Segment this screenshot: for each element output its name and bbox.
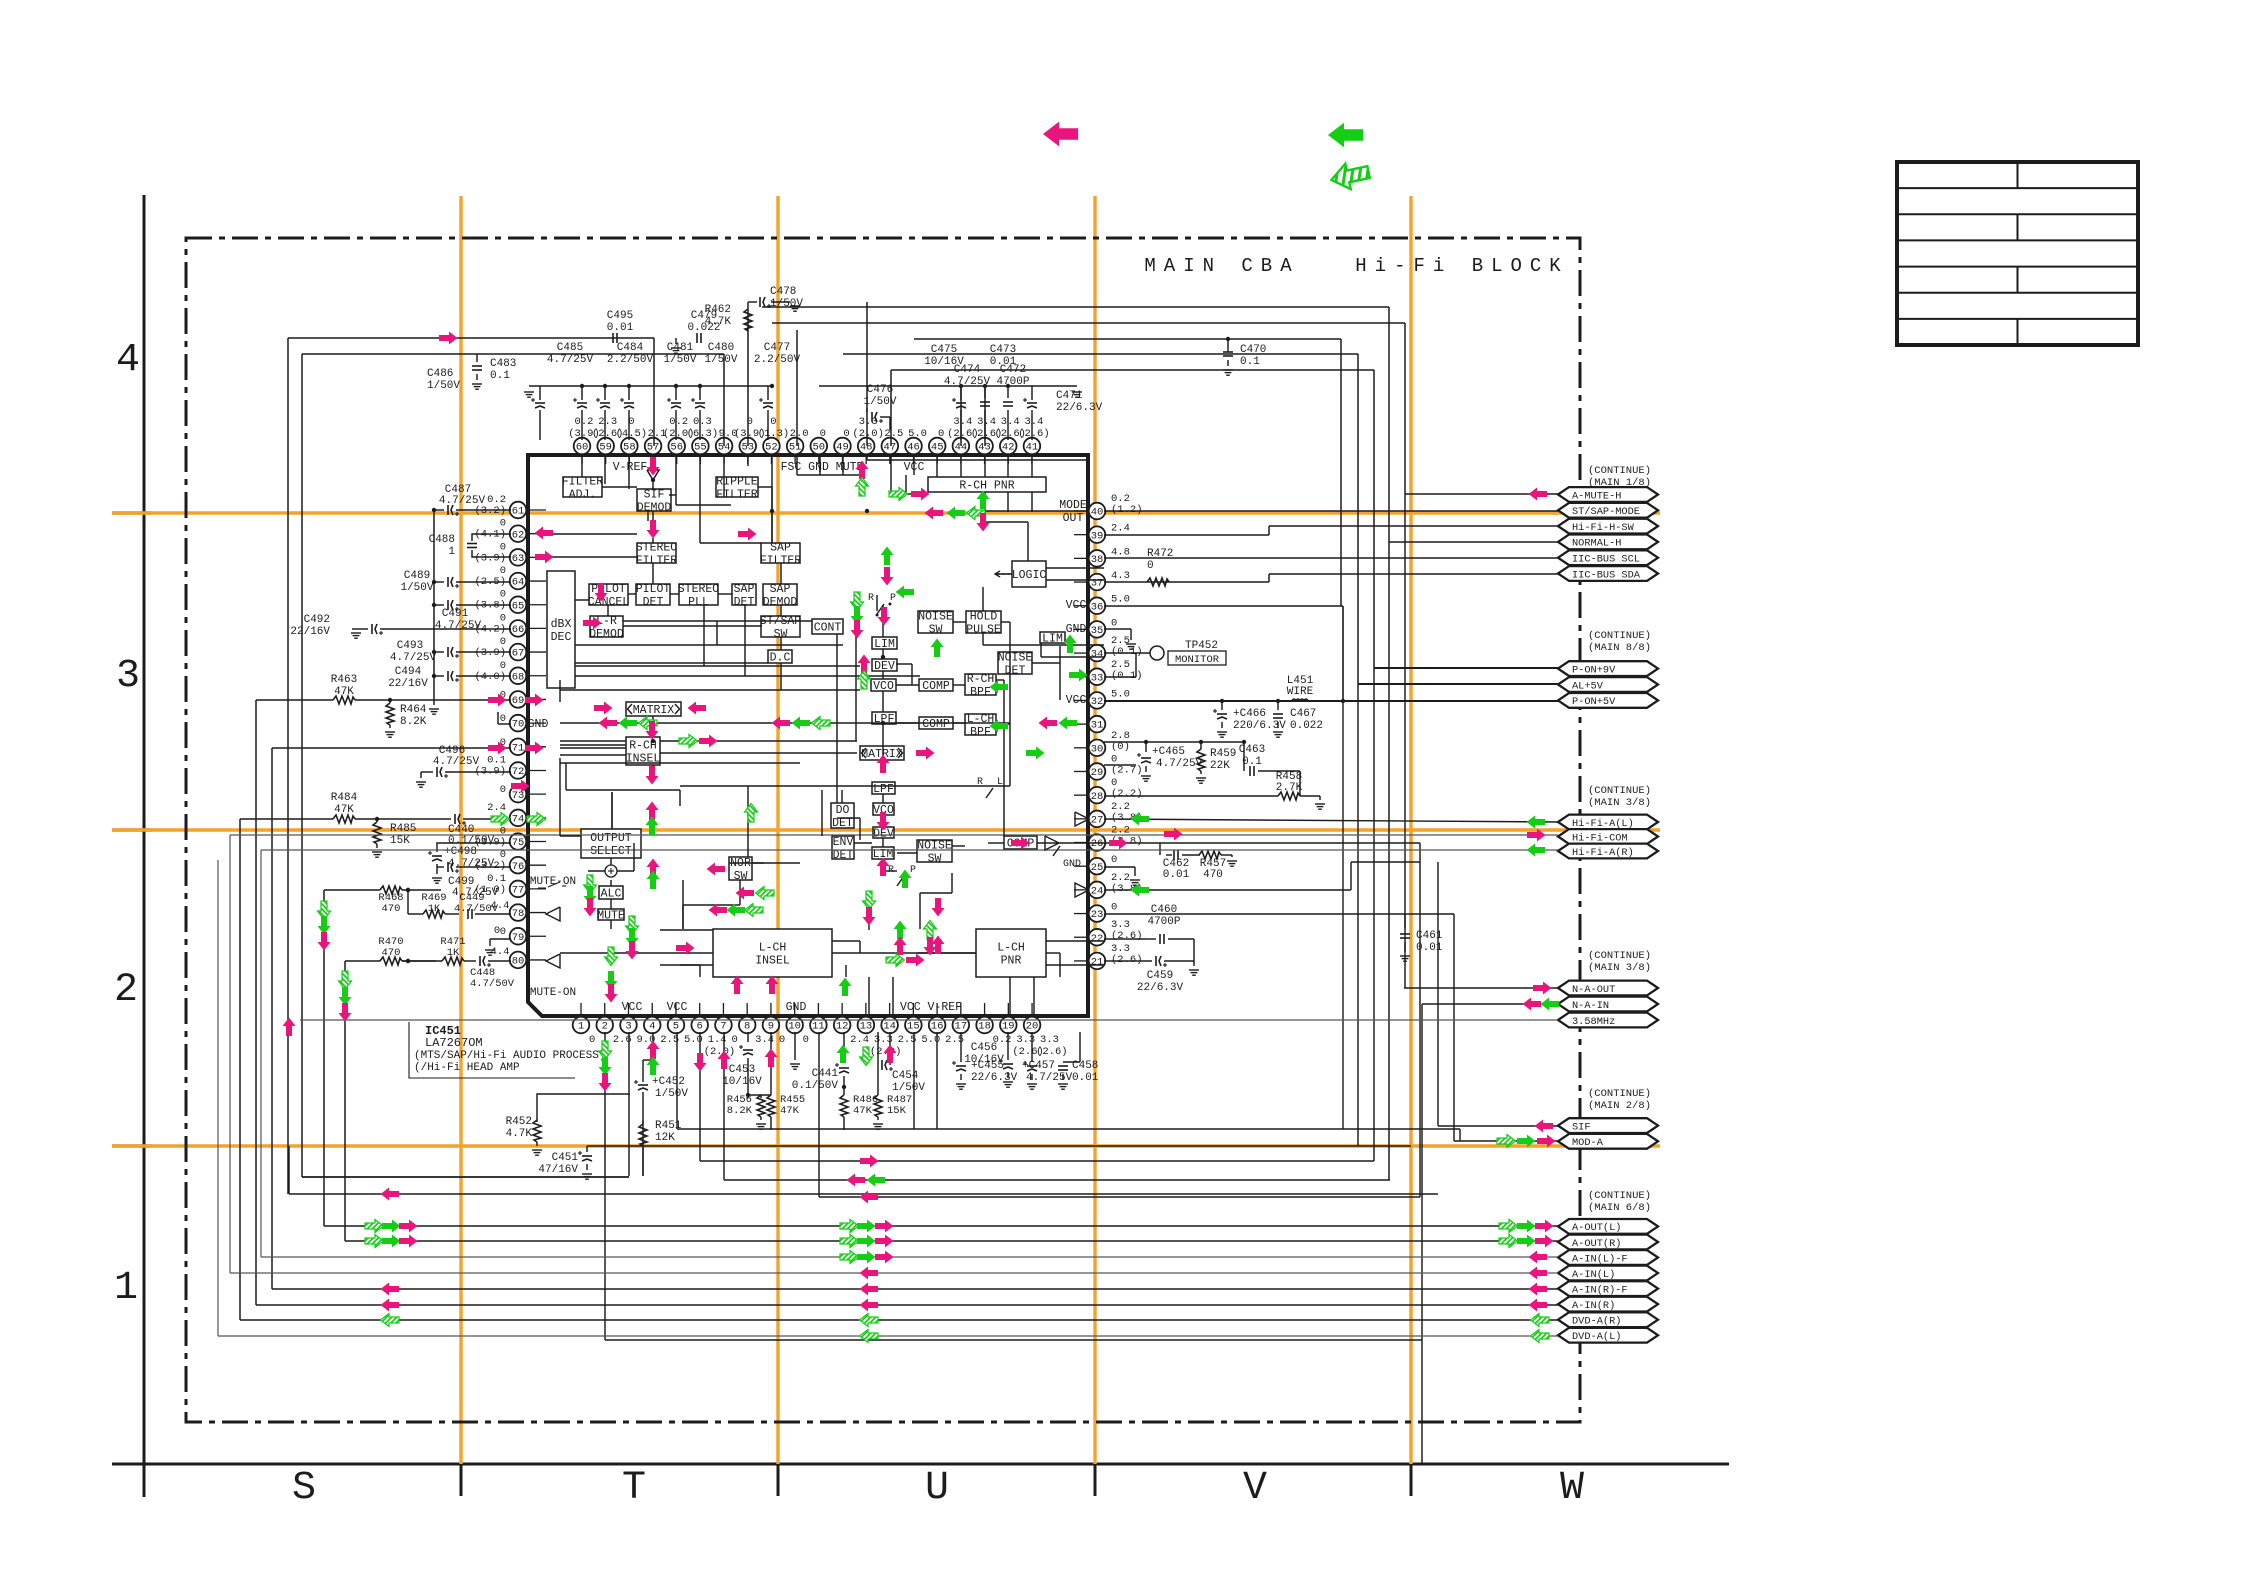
svg-text:4.7/25V: 4.7/25V: [390, 652, 437, 664]
signal arrow: [886, 954, 905, 967]
signal arrow: [745, 804, 758, 823]
pin value: [474, 849, 506, 872]
svg-text:(3.9): (3.9): [474, 765, 506, 777]
wire: [490, 939, 511, 946]
wire: [652, 538, 654, 543]
svg-text:36: 36: [1091, 601, 1104, 613]
svg-text:34: 34: [1091, 649, 1104, 661]
function block MATRIX: [860, 746, 904, 761]
signal arrow: [856, 478, 869, 497]
pin value: [500, 713, 506, 725]
signal arrow: [860, 1299, 879, 1312]
wire: [794, 1032, 796, 1060]
ground: [1130, 880, 1140, 885]
pin value: [921, 1034, 940, 1046]
capacitor C465: [1137, 742, 1203, 781]
svg-text:MUTE-ON: MUTE-ON: [530, 987, 576, 999]
pin value: [1111, 594, 1130, 606]
svg-text:V: V: [1243, 1466, 1267, 1511]
resistor R456: [727, 1094, 771, 1129]
wire: [797, 474, 860, 476]
wire: [1031, 492, 1033, 512]
svg-text:DVD-A(L): DVD-A(L): [1572, 1331, 1621, 1343]
pin 54: [716, 438, 733, 455]
wire: [883, 870, 897, 872]
signal arrow: [894, 921, 907, 940]
IC interior label: [1066, 623, 1087, 636]
wire: [240, 1319, 1558, 1321]
wire: [680, 785, 1010, 787]
signal arrow: [535, 527, 554, 540]
signal arrow: [399, 1220, 418, 1233]
signal arrow: [731, 976, 744, 995]
wire: [718, 593, 732, 595]
wire: [679, 790, 681, 806]
pin value: [803, 1034, 809, 1046]
continue note: [1588, 465, 1651, 489]
wire: [724, 1179, 1390, 1181]
wire: [434, 581, 511, 583]
logic arrow: [995, 571, 1012, 577]
wire: [842, 466, 844, 475]
legend arrow pink: [1043, 122, 1078, 147]
svg-text:32: 32: [1091, 696, 1104, 708]
svg-text:R463: R463: [331, 674, 357, 686]
wire: [882, 794, 884, 803]
IC interior label: [528, 718, 549, 731]
signal arrow: [1527, 816, 1546, 829]
wire: [676, 504, 731, 506]
signal arrow: [911, 488, 930, 501]
pin 43: [976, 438, 993, 455]
svg-text:PNR: PNR: [1001, 955, 1022, 968]
junction: [865, 509, 869, 513]
pin value: [719, 428, 738, 440]
signal arrow: [318, 901, 331, 920]
resistor R471: [440, 936, 465, 965]
IC interior label: [900, 1001, 962, 1014]
svg-text:0: 0: [628, 416, 634, 428]
pin 24: [1089, 882, 1106, 899]
svg-text:IIC-BUS SDA: IIC-BUS SDA: [1572, 569, 1641, 581]
orange grid line: [112, 511, 1660, 514]
signal arrow: [840, 1251, 859, 1264]
svg-text:SW: SW: [928, 853, 942, 866]
wire: [617, 870, 634, 872]
wire: [588, 870, 605, 872]
pin 50: [811, 438, 828, 455]
pin value: [1111, 635, 1143, 658]
junction: [1144, 740, 1148, 744]
wire: [843, 354, 1358, 684]
signal arrow: [863, 891, 876, 910]
signal arrow: [646, 721, 659, 740]
capacitor C471: [1023, 386, 1037, 430]
svg-text:22/6.3V: 22/6.3V: [971, 1072, 1018, 1084]
wire: [669, 494, 676, 496]
wire: [882, 724, 884, 760]
wire: [837, 817, 860, 819]
pin value: [1036, 1046, 1068, 1058]
wire: [747, 455, 749, 466]
junction: [1341, 699, 1345, 703]
wire: [1009, 977, 1011, 1016]
pin value: [1111, 493, 1143, 516]
wire: [882, 859, 884, 871]
pin 1: [573, 1017, 590, 1034]
wire: [1421, 1339, 1423, 1341]
wire: [1046, 952, 1060, 954]
svg-text:COMP: COMP: [922, 680, 950, 693]
wire: [652, 716, 654, 725]
revision table: [1897, 162, 2138, 345]
signal arrow: [1011, 837, 1030, 850]
signal arrow: [1535, 1235, 1554, 1248]
svg-text:DEMOD: DEMOD: [763, 596, 798, 609]
svg-text:MONITOR: MONITOR: [1175, 654, 1220, 666]
capacitor C481: [667, 386, 681, 430]
capacitor C453: [722, 1032, 762, 1098]
svg-text:A-IN(L): A-IN(L): [1572, 1269, 1615, 1281]
svg-text:MATRIX: MATRIX: [633, 704, 675, 717]
signal arrow: [1529, 488, 1548, 501]
IC interior label: [622, 1001, 643, 1014]
svg-text:GND: GND: [528, 718, 549, 731]
svg-text:47K: 47K: [780, 1105, 800, 1117]
svg-text:0: 0: [820, 428, 826, 440]
pin value: [820, 428, 826, 440]
svg-text:AL+5V: AL+5V: [1572, 680, 1604, 692]
signal arrow: [525, 742, 544, 755]
svg-text:56: 56: [670, 442, 683, 454]
signal arrow: [584, 875, 597, 894]
svg-text:22/6.3V: 22/6.3V: [1056, 402, 1103, 414]
node IIC-BUS SDA: [1558, 566, 1658, 581]
node ST/SAP-MODE: [1558, 503, 1658, 518]
svg-text:4.7K: 4.7K: [705, 316, 732, 328]
signal arrow: [1527, 844, 1546, 857]
wire: [914, 339, 1341, 606]
svg-text:71: 71: [512, 742, 525, 754]
wire: [747, 310, 749, 446]
wire: [575, 662, 768, 664]
wire: [261, 1256, 1558, 1258]
pin value: [474, 636, 506, 659]
wire: [682, 880, 684, 929]
svg-text:D.C: D.C: [770, 652, 791, 665]
svg-text:48: 48: [860, 442, 873, 454]
pin 49: [834, 438, 851, 455]
capacitor C498: [428, 843, 511, 870]
svg-text:0.3: 0.3: [693, 416, 712, 428]
pin 79: [510, 928, 527, 945]
signal arrow: [736, 887, 755, 900]
node A-IN(L)-F: [1558, 1250, 1658, 1265]
label C472: [996, 364, 1029, 388]
node P-ON+5V: [1558, 693, 1658, 708]
svg-text:R484: R484: [331, 792, 358, 804]
wire: [1453, 914, 1455, 1141]
pin 48: [858, 438, 875, 455]
signal arrow: [856, 461, 869, 480]
frame tick: [460, 1464, 463, 1496]
wire: [960, 455, 962, 477]
wire: [255, 700, 257, 1305]
signal arrow: [745, 904, 764, 917]
capacitor C492: [290, 614, 511, 638]
svg-text:LIM: LIM: [874, 638, 895, 651]
capacitor C479: [671, 310, 721, 353]
wire: [527, 841, 546, 843]
IC interior label: [781, 461, 864, 474]
wire: [723, 477, 725, 497]
frame tick: [777, 1464, 780, 1496]
op-amp IC451 outline: [528, 455, 1088, 1016]
svg-text:DEMOD: DEMOD: [589, 628, 624, 641]
wire: [652, 563, 654, 584]
wire: [896, 684, 919, 686]
pin value: [971, 416, 1003, 440]
svg-text:LIM: LIM: [1042, 633, 1063, 646]
svg-text:(3.8): (3.8): [474, 600, 506, 612]
wire: [752, 862, 800, 864]
wire: [984, 492, 986, 522]
label C480: [704, 342, 737, 366]
wire: [675, 430, 677, 440]
wire: [683, 904, 740, 906]
svg-text:DET: DET: [833, 849, 854, 862]
function block VCO: [873, 803, 894, 817]
signal arrow: [605, 984, 618, 1003]
wire: [546, 556, 637, 558]
svg-text:0: 0: [938, 428, 944, 440]
resistor R469: [421, 892, 446, 918]
ground: [1315, 804, 1325, 809]
signal arrow: [318, 916, 331, 935]
wire: [1454, 1140, 1558, 1142]
wire: [882, 671, 884, 679]
wire: [1104, 795, 1278, 797]
svg-text:47: 47: [884, 442, 897, 454]
capacitor C472: [1003, 386, 1013, 430]
wire: [1031, 430, 1033, 440]
wire: [892, 977, 894, 1016]
signal arrow: [1517, 1235, 1536, 1248]
label C474: [944, 364, 991, 388]
pin value: [1012, 1046, 1044, 1058]
pin 60: [574, 438, 591, 455]
svg-text:15K: 15K: [887, 1105, 907, 1117]
svg-text:(2.6): (2.6): [1111, 930, 1143, 942]
wire: [300, 1019, 1558, 1021]
signal arrow: [599, 1041, 612, 1060]
pin value: [884, 428, 903, 440]
svg-text:5: 5: [673, 1021, 679, 1033]
wire: [604, 1003, 606, 1016]
logic arrow: [995, 571, 1012, 577]
pin 29: [1089, 763, 1106, 780]
wire: [611, 792, 613, 829]
svg-text:20: 20: [1026, 1021, 1039, 1033]
capacitor C467: [1273, 701, 1323, 737]
pin 4: [644, 1017, 661, 1034]
svg-text:55: 55: [694, 442, 707, 454]
svg-text:47K: 47K: [334, 686, 354, 698]
signal arrow: [535, 551, 554, 564]
svg-text:2.2/50V: 2.2/50V: [754, 354, 801, 366]
wire: [794, 455, 796, 464]
grid col label V: [1243, 1466, 1267, 1511]
wire: [984, 1003, 986, 1016]
wire: [1007, 455, 1009, 477]
svg-text:1: 1: [578, 1021, 584, 1033]
wire: [1104, 913, 1454, 915]
node Hi-Fi-COM: [1558, 829, 1658, 844]
IC interior label: [613, 461, 648, 474]
function block LIM: [872, 847, 894, 861]
wire: [836, 634, 838, 803]
node 3.58MHz: [1558, 1013, 1658, 1028]
function block SAP FILTER: [760, 542, 802, 568]
svg-text:C475: C475: [931, 344, 957, 356]
wire: [605, 455, 607, 464]
svg-text:+C466: +C466: [1233, 708, 1266, 720]
function block R-CH BPF: [965, 673, 996, 699]
wire: [682, 905, 684, 929]
function block LOGIC: [1012, 561, 1047, 587]
svg-text:(2.0): (2.0): [852, 428, 884, 440]
svg-text:C453: C453: [729, 1064, 755, 1076]
wire: [1104, 700, 1558, 702]
svg-text:Hi-Fi-A(R): Hi-Fi-A(R): [1572, 847, 1634, 859]
signal arrow: [718, 1051, 731, 1070]
wire: [652, 455, 654, 462]
capacitor C454: [878, 1032, 925, 1094]
node N-A-OUT: [1558, 981, 1658, 996]
svg-text:RIPPLE: RIPPLE: [716, 476, 758, 489]
wire: [560, 952, 713, 954]
capacitor C457: [1022, 1032, 1073, 1089]
svg-text:MAIN CBA: MAIN CBA: [1144, 255, 1299, 277]
wire: [604, 455, 606, 484]
function block NOR SW: [729, 857, 752, 883]
junction: [375, 817, 379, 821]
capacitor C483: [472, 354, 516, 389]
svg-text:C481: C481: [667, 342, 694, 354]
svg-text:61: 61: [512, 506, 525, 518]
svg-text:C489: C489: [404, 570, 430, 582]
signal arrow: [990, 681, 1009, 694]
resistor R463: [256, 674, 511, 704]
svg-text:0.01: 0.01: [1163, 869, 1190, 881]
svg-text:ENV: ENV: [833, 836, 854, 849]
svg-text:3.3: 3.3: [859, 416, 878, 428]
wire: [817, 1003, 819, 1016]
wire: [565, 763, 567, 790]
wire: [527, 793, 546, 795]
pin 20: [1024, 1017, 1041, 1034]
wire: [1244, 742, 1300, 796]
signal arrow: [1529, 1283, 1548, 1296]
pin value: [1111, 659, 1143, 682]
signal arrow: [884, 1045, 897, 1064]
wire: [866, 455, 868, 460]
signal arrow: [619, 717, 638, 730]
svg-text:MODE: MODE: [1059, 499, 1087, 512]
orange grid line: [112, 828, 1660, 831]
wire: [301, 1146, 303, 1177]
label C471: [1056, 390, 1103, 414]
svg-text:33: 33: [1091, 672, 1104, 684]
signal arrow: [694, 1053, 707, 1072]
svg-text:(1.3): (1.3): [758, 428, 790, 440]
pin value: [491, 946, 510, 958]
signal arrow: [766, 976, 779, 995]
wire: [723, 455, 725, 464]
function block VCO: [871, 679, 896, 693]
svg-text:OUTPUT: OUTPUT: [590, 832, 632, 845]
signal arrow: [837, 1045, 850, 1064]
signal arrow: [867, 1174, 886, 1187]
signal arrow: [847, 1174, 866, 1187]
signal arrow: [881, 567, 894, 586]
svg-text:(3.9): (3.9): [474, 837, 506, 849]
wire: [1358, 683, 1558, 685]
wire: [560, 835, 581, 837]
signal arrow: [916, 747, 935, 760]
svg-text:22/16V: 22/16V: [388, 678, 428, 690]
wire: [1074, 794, 1087, 796]
wire: [700, 1160, 1374, 1162]
pin 38: [1089, 550, 1106, 567]
svg-text:0.2: 0.2: [575, 416, 594, 428]
wire: [633, 843, 635, 871]
pin value: [589, 1034, 595, 1046]
border frame left rule: [143, 195, 146, 1497]
capacitor C488: [429, 534, 511, 558]
signal arrow: [527, 813, 546, 826]
svg-text:DEV: DEV: [874, 660, 895, 673]
wire: [434, 675, 511, 677]
wire: [527, 769, 546, 771]
svg-text:58: 58: [623, 442, 636, 454]
wire: [539, 430, 541, 440]
pin 15: [905, 1017, 922, 1034]
svg-text:PILOT: PILOT: [636, 583, 671, 596]
wire: [652, 511, 654, 521]
svg-text:C441: C441: [812, 1068, 839, 1080]
svg-text:SAP: SAP: [770, 542, 791, 555]
signal arrow: [860, 1267, 879, 1280]
wire: [647, 511, 649, 521]
signal arrow: [840, 1220, 859, 1233]
svg-text:NORMAL-H: NORMAL-H: [1572, 538, 1621, 550]
svg-text:DEC: DEC: [551, 631, 572, 644]
wire: [1027, 522, 1029, 561]
wire: [1419, 843, 1421, 1197]
node MOD-A: [1558, 1134, 1658, 1149]
svg-text:3.3: 3.3: [1040, 1034, 1059, 1046]
junction: [1199, 740, 1203, 744]
svg-text:Hi-Fi-H-SW: Hi-Fi-H-SW: [1572, 522, 1635, 534]
svg-text:PLL: PLL: [688, 596, 709, 609]
junction: [1220, 699, 1224, 703]
pin value: [500, 737, 506, 749]
wire: [747, 455, 749, 464]
wire: [610, 858, 612, 867]
wire: [905, 475, 907, 494]
junction: [406, 959, 410, 963]
